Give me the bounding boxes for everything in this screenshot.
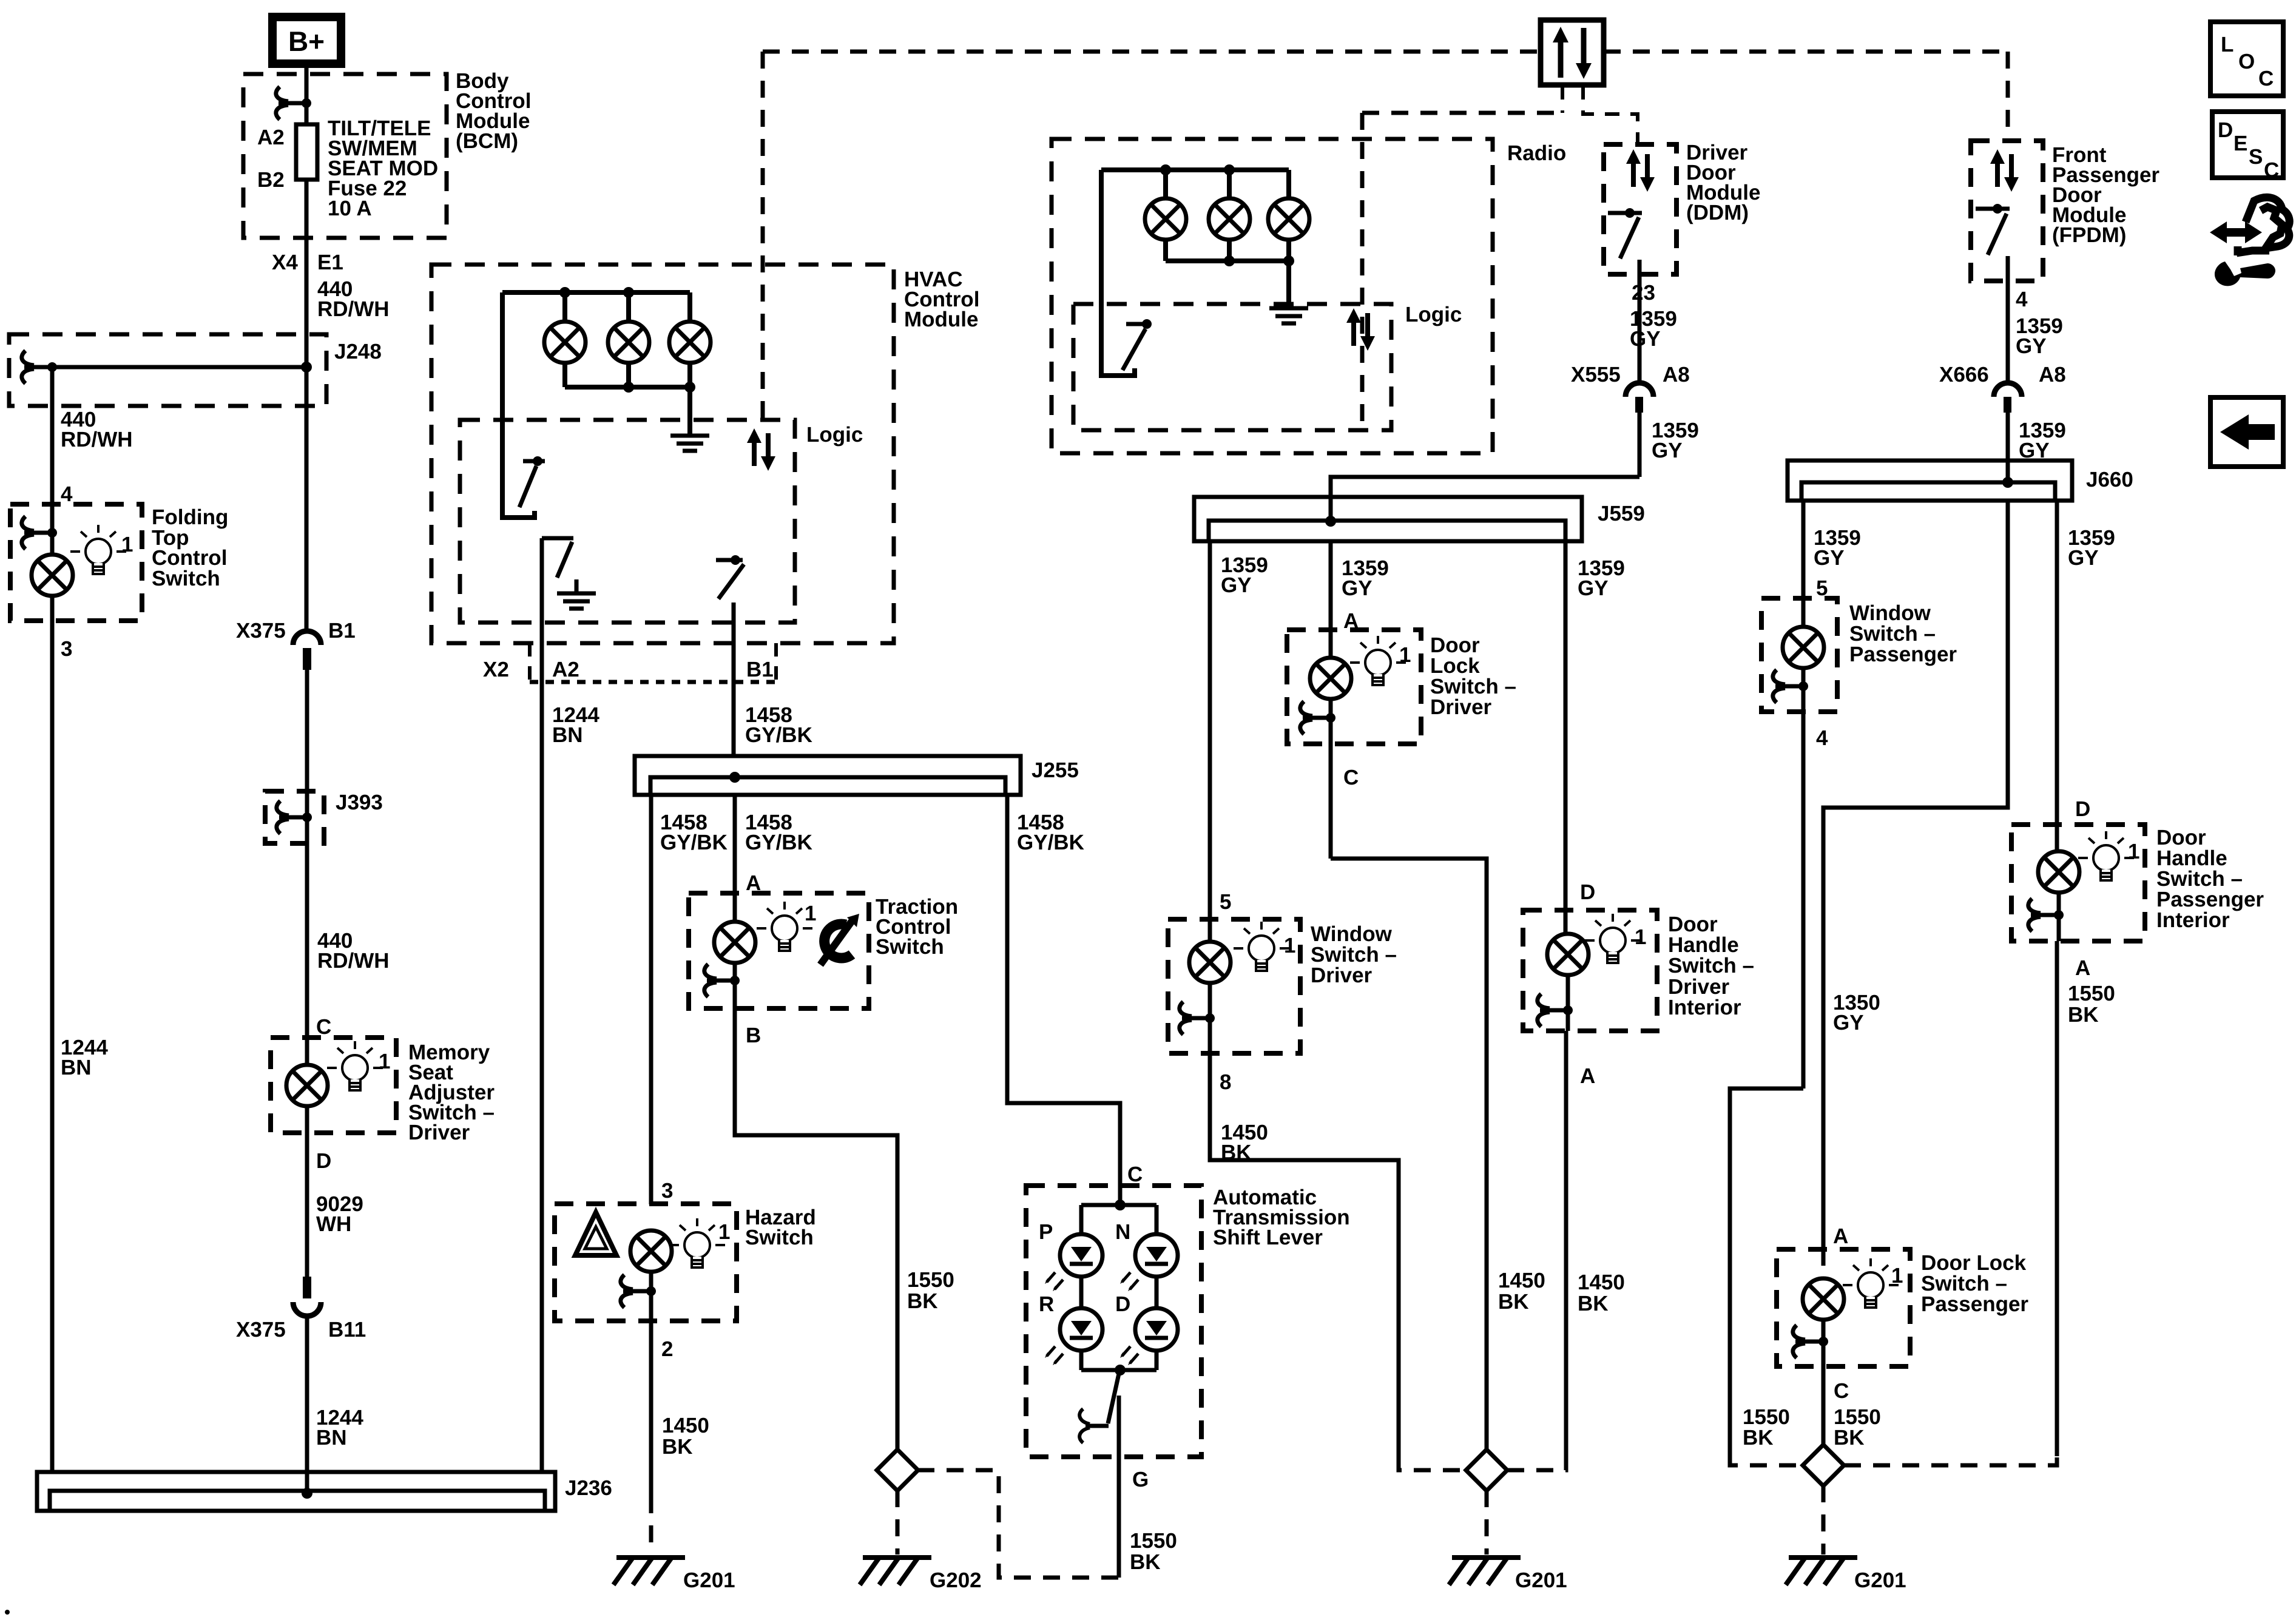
svg-text:BN: BN <box>61 1056 92 1079</box>
svg-text:1: 1 <box>1635 925 1646 949</box>
svg-text:GY: GY <box>1652 439 1683 462</box>
svg-text:1550: 1550 <box>1130 1529 1177 1553</box>
svg-text:2: 2 <box>661 1337 673 1361</box>
svg-text:A2: A2 <box>552 658 579 681</box>
svg-text:J248: J248 <box>334 340 382 363</box>
svg-text:23: 23 <box>1632 281 1655 305</box>
svg-text:Interior: Interior <box>2156 908 2230 932</box>
svg-text:GY: GY <box>1833 1011 1864 1035</box>
svg-text:Logic: Logic <box>806 423 863 447</box>
svg-text:C: C <box>2264 158 2279 182</box>
svg-text:GY: GY <box>2068 546 2099 570</box>
svg-text:WH: WH <box>316 1212 351 1236</box>
svg-text:N: N <box>1115 1220 1130 1244</box>
svg-text:B: B <box>746 1024 761 1047</box>
svg-text:BN: BN <box>316 1426 347 1450</box>
svg-text:R: R <box>1039 1292 1054 1316</box>
svg-text:G201: G201 <box>1854 1568 1906 1592</box>
svg-text:GY/BK: GY/BK <box>660 831 728 854</box>
svg-text:G202: G202 <box>930 1568 982 1592</box>
svg-text:X4: X4 <box>272 251 298 274</box>
svg-text:BK: BK <box>2068 1003 2099 1027</box>
svg-text:X375: X375 <box>236 619 286 643</box>
svg-text:E1: E1 <box>317 251 343 274</box>
svg-text:G: G <box>1132 1468 1149 1491</box>
svg-text:Driver: Driver <box>1430 695 1492 719</box>
svg-text:Switch: Switch <box>152 567 220 590</box>
svg-text:Shift Lever: Shift Lever <box>1213 1226 1323 1249</box>
svg-text:3: 3 <box>61 637 72 661</box>
svg-text:4: 4 <box>1816 726 1828 750</box>
svg-text:A: A <box>1833 1224 1848 1248</box>
svg-text:GY/BK: GY/BK <box>745 831 812 854</box>
svg-text:5: 5 <box>1220 890 1231 914</box>
svg-text:Radio: Radio <box>1507 141 1566 165</box>
svg-text:C: C <box>1834 1379 1849 1403</box>
svg-text:X666: X666 <box>1939 363 1989 387</box>
svg-text:J255: J255 <box>1032 758 1079 782</box>
svg-text:4: 4 <box>61 482 73 506</box>
svg-text:1: 1 <box>379 1050 390 1073</box>
svg-text:L: L <box>2221 33 2234 56</box>
svg-text:C: C <box>2258 67 2274 90</box>
svg-text:RD/WH: RD/WH <box>61 428 133 451</box>
svg-text:BK: BK <box>1834 1426 1865 1450</box>
svg-text:GY: GY <box>1630 327 1661 351</box>
svg-text:1450: 1450 <box>1578 1271 1625 1294</box>
svg-text:Module: Module <box>904 308 978 331</box>
svg-text:BK: BK <box>662 1435 693 1459</box>
svg-text:BN: BN <box>552 723 583 747</box>
svg-text:GY: GY <box>1221 573 1252 597</box>
svg-text:Logic: Logic <box>1405 303 1462 326</box>
svg-text:P: P <box>1039 1220 1053 1244</box>
svg-text:1550: 1550 <box>907 1268 954 1292</box>
svg-text:BK: BK <box>1498 1290 1529 1314</box>
svg-text:J660: J660 <box>2086 468 2133 491</box>
svg-text:D: D <box>2218 118 2233 142</box>
svg-text:C: C <box>1127 1163 1143 1186</box>
svg-text:1: 1 <box>121 533 133 556</box>
svg-text:(DDM): (DDM) <box>1686 201 1749 224</box>
svg-text:BK: BK <box>1743 1426 1774 1450</box>
svg-text:A8: A8 <box>2039 363 2066 387</box>
svg-text:GY: GY <box>1578 576 1609 600</box>
svg-text:B1: B1 <box>328 619 356 643</box>
svg-text:(BCM): (BCM) <box>456 129 518 153</box>
svg-text:GY: GY <box>2016 334 2047 358</box>
svg-text:S: S <box>2249 145 2263 169</box>
svg-text:8: 8 <box>1220 1070 1231 1094</box>
svg-text:4: 4 <box>2016 288 2028 311</box>
svg-text:B2: B2 <box>257 168 285 192</box>
svg-text:C: C <box>1343 766 1359 789</box>
svg-text:1550: 1550 <box>2068 982 2115 1005</box>
svg-text:GY/BK: GY/BK <box>745 723 812 747</box>
svg-text:B+: B+ <box>288 25 325 57</box>
svg-text:O: O <box>2238 50 2255 73</box>
svg-text:RD/WH: RD/WH <box>317 297 390 321</box>
svg-text:Switch –: Switch – <box>1668 954 1754 977</box>
svg-text:1: 1 <box>2128 840 2139 863</box>
svg-text:BK: BK <box>1578 1292 1609 1315</box>
svg-text:A2: A2 <box>257 126 285 149</box>
svg-text:J236: J236 <box>565 1476 612 1500</box>
svg-text:(FPDM): (FPDM) <box>2052 223 2126 247</box>
svg-text:GY: GY <box>1814 546 1845 570</box>
svg-text:1: 1 <box>805 902 816 925</box>
svg-text:G201: G201 <box>1515 1568 1567 1592</box>
svg-text:D: D <box>316 1149 331 1173</box>
svg-text:1: 1 <box>718 1220 730 1244</box>
svg-text:X555: X555 <box>1571 363 1621 387</box>
svg-text:BK: BK <box>1130 1550 1161 1574</box>
svg-text:J393: J393 <box>336 791 383 814</box>
svg-text:Driver: Driver <box>408 1121 470 1144</box>
svg-text:1450: 1450 <box>662 1414 709 1437</box>
svg-text:D: D <box>1580 880 1595 904</box>
svg-text:A: A <box>1580 1064 1595 1088</box>
svg-text:1: 1 <box>1891 1264 1903 1288</box>
svg-text:B11: B11 <box>328 1318 366 1342</box>
svg-text:Switch: Switch <box>876 935 944 959</box>
svg-text:RD/WH: RD/WH <box>317 949 390 973</box>
svg-text:X375: X375 <box>236 1318 286 1342</box>
svg-text:A8: A8 <box>1663 363 1690 387</box>
svg-text:Driver: Driver <box>1311 964 1373 987</box>
svg-text:X2: X2 <box>483 658 509 681</box>
svg-text:G201: G201 <box>683 1568 735 1592</box>
svg-text:A: A <box>2075 956 2090 980</box>
svg-text:1: 1 <box>1399 643 1411 667</box>
svg-text:10 A: 10 A <box>328 197 372 220</box>
svg-text:D: D <box>1115 1292 1130 1316</box>
svg-text:GY: GY <box>1342 576 1373 600</box>
svg-text:1: 1 <box>1284 934 1295 957</box>
svg-text:1450: 1450 <box>1498 1269 1545 1292</box>
svg-text:BK: BK <box>1221 1141 1252 1164</box>
svg-text:J559: J559 <box>1598 502 1645 525</box>
svg-text:Passenger: Passenger <box>1849 643 1957 666</box>
svg-text:Switch: Switch <box>745 1226 814 1249</box>
svg-text:D: D <box>2075 797 2090 821</box>
svg-text:B1: B1 <box>746 658 774 681</box>
svg-text:BK: BK <box>907 1289 938 1313</box>
svg-text:GY/BK: GY/BK <box>1017 831 1084 854</box>
svg-text:Passenger: Passenger <box>1921 1292 2028 1316</box>
svg-text:Interior: Interior <box>1668 996 1741 1019</box>
svg-text:3: 3 <box>661 1179 673 1203</box>
svg-text:E: E <box>2234 132 2247 155</box>
